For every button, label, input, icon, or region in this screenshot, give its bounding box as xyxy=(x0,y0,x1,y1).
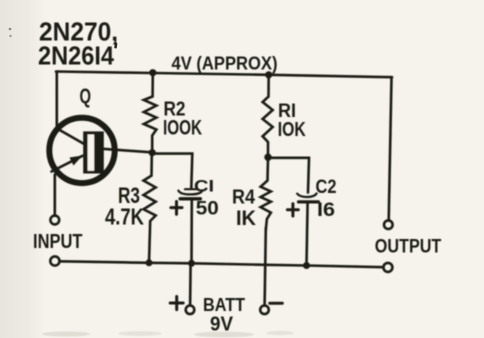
junction node R1/R4/C2 xyxy=(264,154,271,161)
input terminal lower xyxy=(50,256,59,265)
wire: left drop from rail to transistor collector xyxy=(55,72,58,129)
resistor R4 xyxy=(261,158,271,231)
label BATT 9V xyxy=(203,294,246,336)
svg-text:C2: C2 xyxy=(316,177,337,198)
svg-text:IOOK: IOOK xyxy=(163,117,202,140)
wire: battery plus lead xyxy=(189,263,192,305)
label 4V (APPROX) xyxy=(172,54,278,74)
wire: right drop from rail to output terminal xyxy=(389,77,392,220)
label R2 value xyxy=(163,99,202,140)
junction node rail/C1/battery xyxy=(188,260,195,267)
output terminal upper xyxy=(384,220,393,229)
label R4 value xyxy=(232,187,256,231)
minus sign at battery xyxy=(270,302,283,305)
svg-text:CI: CI xyxy=(194,176,214,195)
battery minus terminal xyxy=(260,306,269,315)
capacitor C2 plates xyxy=(297,194,318,202)
wire: branch from R1 node to C2 xyxy=(268,158,309,193)
label OUTPUT xyxy=(375,237,442,258)
wire: branch from node to C1 xyxy=(153,154,193,188)
label transistor types 2N270, 2N2614 xyxy=(38,17,118,71)
svg-text:BATT: BATT xyxy=(203,294,246,315)
resistor R3 xyxy=(144,154,156,263)
label R3 value xyxy=(105,183,144,230)
paper smudge bottom left xyxy=(42,331,294,338)
junction node R2 top xyxy=(149,69,156,76)
capacitor C1 plates xyxy=(178,189,202,199)
junction node rail/C2 xyxy=(303,262,310,269)
junction node base/R2/R3 xyxy=(149,149,156,156)
battery plus terminal xyxy=(186,306,195,315)
svg-text:R4: R4 xyxy=(232,187,256,209)
svg-text:4.7K: 4.7K xyxy=(105,204,144,230)
svg-text:IK: IK xyxy=(236,207,256,230)
transistor Q collector line xyxy=(57,129,85,145)
label C2 value xyxy=(316,177,337,221)
label INPUT xyxy=(33,231,83,253)
wire: R4 lead through rail to battery minus xyxy=(265,228,266,306)
label Q xyxy=(80,85,92,108)
wire: base lead from transistor to R2/R3 node xyxy=(103,149,152,153)
svg-text:Q: Q xyxy=(80,85,92,108)
input terminal upper xyxy=(50,216,59,225)
transistor Q emitter line xyxy=(52,156,83,172)
svg-text:I6: I6 xyxy=(317,200,335,221)
resistor R2 xyxy=(144,73,157,152)
svg-text:INPUT: INPUT xyxy=(33,231,83,253)
output terminal lower xyxy=(383,263,392,272)
plus sign at battery xyxy=(170,297,183,310)
transistor Q emitter arrowhead xyxy=(70,156,83,166)
plus sign at C1 xyxy=(171,202,182,215)
paper speck after 2N2614 xyxy=(114,42,117,48)
wire: C1 bottom lead to ground rail xyxy=(190,200,193,264)
resistor R1 xyxy=(263,75,273,156)
svg-text:IOK: IOK xyxy=(278,119,306,141)
wire: bottom ground rail xyxy=(60,261,384,267)
wire: emitter lead down to input terminal xyxy=(53,175,56,216)
svg-text:9V: 9V xyxy=(210,314,234,336)
transistor Q base bar xyxy=(83,131,104,173)
svg-text:2N26I4: 2N26I4 xyxy=(38,41,114,71)
label C1 value xyxy=(194,176,219,219)
paper speck left margin xyxy=(9,28,12,38)
svg-text:OUTPUT: OUTPUT xyxy=(375,237,442,258)
wire: C2 bottom lead to ground rail xyxy=(307,202,308,266)
svg-text:4V (APPROX): 4V (APPROX) xyxy=(172,54,278,74)
plus sign at C2 xyxy=(287,204,298,216)
label R1 value xyxy=(278,101,306,141)
junction node rail/R3 xyxy=(146,259,153,266)
junction node R1 top xyxy=(265,71,272,78)
wire: top supply rail xyxy=(56,72,392,78)
svg-text:50: 50 xyxy=(196,199,219,220)
transistor Q outline circle xyxy=(49,118,114,183)
